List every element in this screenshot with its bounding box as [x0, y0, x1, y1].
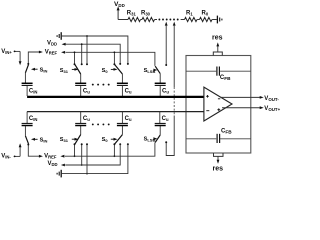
svg-text:CFB: CFB: [221, 129, 232, 135]
wire (top VDD rail): [66, 44, 121, 64]
svg-text:Cu: Cu: [83, 116, 90, 122]
switch res (top reset tab + arrow + label): [212, 35, 223, 56]
wire (S_31 GND drop): [86, 35, 88, 65]
wire (bottom S_IN VREF throw, down to VREF label arrow): [27, 144, 43, 158]
wire: [212, 19, 217, 21]
svg-text:VDD: VDD: [47, 40, 57, 46]
node dots (top array continuation): [92, 84, 110, 86]
wire (bottom GND rail): [62, 144, 128, 173]
svg-text:res: res: [212, 35, 223, 42]
wire (VIN+ throw terminal of S_IN, down arrow): [19, 51, 22, 65]
svg-text:VIN+: VIN+: [1, 49, 12, 55]
wire (S_IN VREF throw, up to VREF label arrow): [27, 51, 43, 65]
wire (S_31 VREF drop): [74, 51, 76, 65]
op-amp input + mark: [206, 95, 209, 98]
ground (right end of resistor string): [217, 16, 222, 24]
capacitor C_u (top, bit 0): [117, 83, 132, 96]
wire: [181, 19, 185, 21]
node VIN+: [1, 49, 20, 55]
node VIN-: [1, 154, 20, 160]
node dots (bottom array continuation): [92, 123, 110, 125]
wire: [155, 19, 157, 21]
svg-text:CIN: CIN: [29, 116, 38, 122]
svg-text:Cu: Cu: [125, 89, 132, 95]
wire: [197, 19, 199, 21]
switch S_0 (bottom lever + label): [102, 126, 123, 144]
capacitor C_IN (bottom): [22, 112, 38, 126]
wire (resistor tap 2 to bottom S_LSB, dashed where crossing): [165, 22, 175, 156]
switch S_31 (top lever + label): [60, 65, 81, 83]
svg-text:R31: R31: [127, 11, 137, 17]
node (bottom S_0 VDD corner terminal dot): [119, 143, 121, 145]
svg-text:Cu: Cu: [125, 116, 132, 122]
switch S_LSB (bottom lever + label): [144, 126, 161, 143]
svg-text:CFB: CFB: [220, 75, 231, 81]
svg-text:S0: S0: [102, 68, 109, 74]
op-amp output - mark: [218, 98, 220, 100]
wire (VIN- throw terminal of S_IN, up arrow): [19, 143, 22, 156]
wire (VOUT+ output line + arrow): [222, 106, 264, 109]
wire (top GND rail): [62, 36, 128, 64]
node (S_0 VDD corner terminal dot): [119, 63, 121, 65]
wire (VOUT- output line + arrow): [221, 96, 264, 99]
svg-text:R1: R1: [186, 11, 193, 17]
node VDD (top supply for resistor string): [114, 1, 125, 20]
resistor R0: [200, 11, 213, 22]
switch S_0 (top lever + label): [102, 65, 123, 83]
wire (S_0 VREF drop): [113, 51, 115, 65]
op-amp U1 (fully differential comparator): [204, 87, 232, 121]
capacitor C_FB (top feedback): [186, 67, 251, 81]
wire (bottom S_31 VREF drop): [74, 143, 76, 157]
svg-text:VIN-: VIN-: [1, 154, 11, 160]
capacitor C_IN (top): [22, 83, 38, 96]
wire (bottom VREF rail): [65, 143, 155, 157]
svg-text:CIN: CIN: [29, 89, 38, 95]
svg-text:SIN: SIN: [40, 138, 48, 144]
wire (S_31 VDD drop): [81, 43, 83, 65]
op-amp output + mark: [217, 108, 220, 111]
svg-text:R30: R30: [141, 11, 151, 17]
svg-text:S31: S31: [60, 68, 69, 74]
node VREF (bottom rail label+arrows): [44, 153, 64, 159]
svg-text:Cu: Cu: [162, 116, 169, 122]
capacitor C_u (top, LSB): [155, 83, 170, 96]
node VREF (top rail label+arrows): [45, 49, 65, 55]
capacitor C_u (bottom, LSB): [155, 112, 169, 126]
wire (resistor string backbone): [118, 19, 128, 21]
svg-text:SIN: SIN: [40, 67, 48, 73]
wire (bottom plate bus -, to comparator): [27, 111, 204, 113]
wire (bottom S_0 VREF drop): [113, 143, 115, 157]
capacitor C_u (bottom, bit 0): [117, 112, 132, 126]
switch S_LSB (top lever + label): [144, 66, 161, 83]
resistor R1: [185, 11, 198, 22]
capacitor C_FB (bottom feedback): [186, 129, 251, 143]
wire (bottom S_31 VDD drop): [81, 143, 83, 166]
wire (top plate bus +, to comparator): [27, 96, 204, 98]
svg-text:res: res: [213, 166, 224, 173]
switch S_IN (top lever + label): [25, 65, 47, 83]
svg-text:VOUT-: VOUT-: [264, 96, 279, 102]
node (bottom S_0 GND corner terminal dot): [127, 143, 129, 145]
svg-text:S0: S0: [102, 137, 109, 143]
capacitor C_u (bottom, bit 31): [75, 112, 90, 126]
node dots (resistor string continuation): [158, 19, 178, 21]
resistor R30: [141, 11, 155, 22]
node VDD (bottom rail label+arrow): [48, 161, 65, 167]
switch S_IN (bottom lever + label): [25, 126, 47, 144]
svg-text:R0: R0: [202, 11, 209, 17]
svg-text:VDD: VDD: [48, 161, 58, 167]
op-amp input - mark: [206, 110, 209, 112]
node (S_0 GND corner terminal dot): [127, 63, 129, 65]
ground (bottom-left rail symbol): [57, 170, 61, 178]
svg-text:VOUT+: VOUT+: [264, 106, 280, 112]
wire (bottom VDD rail): [65, 144, 120, 165]
wire (resistor tap 1 to top S_LSB, with up arrow): [165, 22, 168, 66]
wire: [141, 19, 142, 21]
comparator feedback box: [186, 56, 251, 154]
ground (top-left rail symbol): [57, 32, 61, 40]
svg-text:Cu: Cu: [162, 89, 169, 95]
capacitor C_u (top, bit 31): [75, 83, 90, 96]
svg-text:S31: S31: [60, 137, 69, 143]
svg-text:Cu: Cu: [83, 89, 90, 95]
wire (top VREF rail): [66, 52, 155, 66]
wire (bottom S_31 GND drop): [86, 143, 88, 174]
node VDD (top rail label+arrow): [47, 40, 66, 46]
resistor R31: [127, 11, 141, 22]
svg-text:VREF: VREF: [44, 153, 57, 159]
switch S_31 (bottom lever + label): [60, 126, 81, 144]
switch res (bottom reset tab + arrow + label): [213, 153, 224, 173]
svg-text:VREF: VREF: [45, 49, 58, 55]
